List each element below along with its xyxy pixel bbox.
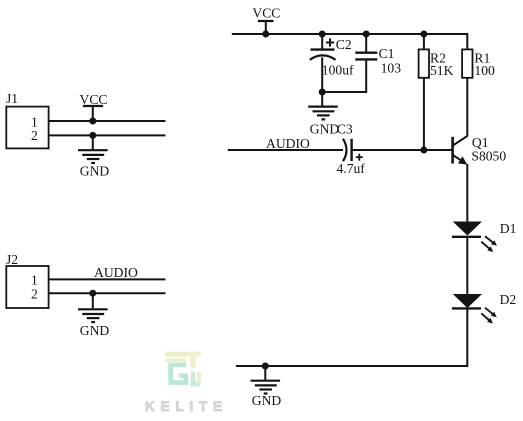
svg-text:2: 2 (31, 128, 38, 143)
svg-text:GND: GND (80, 323, 110, 338)
svg-text:C2: C2 (336, 37, 352, 52)
svg-text:VCC: VCC (80, 92, 108, 107)
junction: base node (R2 / C3) (420, 147, 427, 154)
ground GND (bottom rail) (251, 381, 282, 408)
svg-text:S8050: S8050 (471, 149, 506, 164)
svg-text:GND: GND (80, 164, 110, 179)
watermark (decorative background logo) (145, 352, 228, 414)
wire: C2 down to ground node (321, 57, 323, 92)
wire: rail corner down into R1 (466, 33, 468, 49)
ground GND (J2) (78, 309, 109, 338)
junction: J1 GND tap (89, 132, 96, 139)
wire: R2 down to base node (423, 78, 425, 150)
wire: J1 GND stub (92, 135, 94, 150)
wire: J1 pin 1 to VCC net (49, 120, 166, 122)
transistor Q1 (S8050 NPN) (453, 135, 507, 164)
svg-text:100: 100 (474, 63, 495, 78)
wire: emitter down to D1 (466, 164, 468, 222)
capacitor C2 (electrolytic 100uf) (310, 37, 354, 78)
ground GND (filter caps) (308, 107, 339, 137)
wire: D2 cathode down and along bottom ground rail (236, 308, 467, 366)
svg-text:J1: J1 (6, 91, 18, 106)
svg-text:4.7uf: 4.7uf (337, 161, 366, 176)
svg-text:C1: C1 (379, 46, 395, 61)
wire: C1 bottom over to C2 bottom (322, 59, 366, 92)
wire: J2 pin 1 AUDIO line (49, 278, 166, 280)
svg-text:GND: GND (252, 393, 282, 408)
resistor R1 (100) (462, 49, 495, 77)
svg-text:AUDIO: AUDIO (94, 265, 138, 280)
wire: rail down to C1 (365, 34, 367, 53)
junction: C1/C2 ground node (319, 89, 326, 96)
ground GND (J1) (78, 150, 109, 179)
junction: J2 GND tap (89, 290, 96, 297)
wire: R1 down to Q1 collector (466, 78, 468, 136)
wire: J1 pin 2 to GND (49, 134, 166, 136)
connector J1 (6, 91, 49, 148)
wire: J2 pin 2 to GND (49, 292, 166, 294)
wire: ground node down to GND symbol (321, 92, 323, 107)
svg-text:100uf: 100uf (322, 62, 354, 77)
junction: VCC stub on rail (262, 31, 269, 38)
svg-text:1: 1 (31, 273, 38, 288)
wire: rail down to C2 (321, 34, 323, 50)
junction: C1 tap on rail (363, 31, 370, 38)
wire: AUDIO input line (228, 149, 343, 151)
wire: VCC stub (J1) (92, 106, 94, 121)
junction: bottom ground tap (262, 363, 269, 370)
wire: rail down to R2 (423, 34, 425, 49)
wire: VCC top rail (232, 33, 467, 35)
power symbol VCC (J1) (80, 92, 108, 107)
svg-text:AUDIO: AUDIO (266, 136, 310, 151)
svg-text:KELITE: KELITE (145, 399, 228, 414)
capacitor C1 (103) (355, 46, 401, 76)
connector J2 (6, 252, 49, 308)
wire: J2 GND stub (92, 293, 94, 309)
wire: tap down to GND symbol (264, 366, 266, 381)
svg-text:GND: GND (310, 121, 340, 136)
svg-text:C3: C3 (337, 121, 353, 136)
svg-text:103: 103 (381, 61, 402, 76)
capacitor C3 (4.7uf electrolytic) (337, 121, 366, 176)
LED D2 (452, 292, 517, 324)
svg-text:2: 2 (31, 286, 38, 301)
wire: VCC stub down to rail (265, 21, 267, 34)
junction: J1 VCC tap (89, 118, 96, 125)
svg-text:D1: D1 (500, 221, 517, 236)
resistor R2 (51K) (419, 49, 454, 77)
wire: D1 cathode down to D2 (466, 237, 468, 294)
wire: C3 to Q1 base (352, 149, 453, 151)
svg-text:J2: J2 (6, 252, 18, 267)
LED D1 (452, 221, 517, 252)
junction: C2 tap on rail (319, 31, 326, 38)
junction: R2 tap on rail (420, 31, 427, 38)
power symbol VCC (top rail) (252, 5, 280, 21)
svg-text:D2: D2 (500, 292, 517, 307)
svg-text:51K: 51K (430, 63, 454, 78)
svg-text:VCC: VCC (252, 5, 280, 20)
